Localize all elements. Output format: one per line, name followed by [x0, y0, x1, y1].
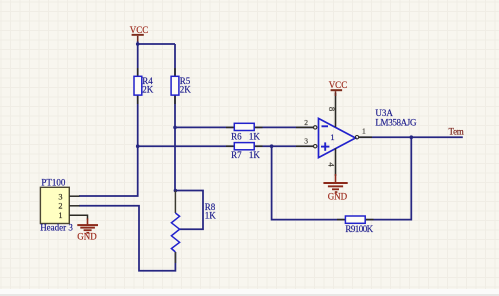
junction dot R7 tap on R4 line	[136, 144, 140, 148]
op-amp pin 2	[296, 118, 317, 129]
wire feedback: node after R7 down, through R9, up to output	[272, 137, 412, 219]
svg-text:1: 1	[330, 132, 334, 142]
junction dot R8 top	[174, 189, 178, 193]
potentiometer R8	[171, 191, 216, 264]
op-amp pin 3	[296, 136, 317, 148]
svg-text:LM358AJG: LM358AJG	[375, 117, 417, 127]
svg-text:U3A: U3A	[375, 108, 393, 118]
svg-text:2: 2	[304, 118, 308, 127]
pin 2 stub	[69, 205, 79, 207]
svg-text:PT100: PT100	[41, 178, 66, 188]
svg-text:3: 3	[304, 136, 308, 145]
svg-text:GND: GND	[328, 191, 348, 201]
svg-text:Tem: Tem	[449, 126, 464, 136]
resistor R6	[226, 123, 263, 141]
op-amp pin 1 output	[355, 127, 372, 139]
op-amp pin 4	[327, 148, 337, 176]
junction dot output to feedback	[410, 135, 414, 139]
svg-text:4: 4	[327, 162, 337, 167]
svg-text:1: 1	[58, 211, 62, 220]
svg-text:R7: R7	[231, 150, 242, 160]
svg-text:2K: 2K	[142, 85, 154, 95]
power symbol VCC (left)	[130, 25, 149, 42]
svg-text:1K: 1K	[205, 211, 217, 221]
svg-text:3: 3	[58, 192, 62, 201]
resistor R5	[171, 68, 191, 104]
svg-text:GND: GND	[77, 232, 97, 242]
svg-text:VCC: VCC	[130, 25, 149, 35]
pin 3 stub	[69, 195, 79, 197]
wire vertical through R4 down to PT100 pin3 wire	[79, 44, 138, 196]
junction dot VCC branch	[136, 42, 140, 46]
bottom edge strip	[0, 289, 499, 296]
svg-text:1: 1	[362, 127, 366, 136]
svg-text:8: 8	[327, 107, 337, 111]
svg-text:2K: 2K	[180, 85, 192, 95]
connector PT100 / Header 3	[40, 178, 87, 233]
svg-text:1K: 1K	[249, 132, 261, 142]
op-amp pin 8	[327, 93, 337, 127]
resistor R9	[337, 216, 374, 234]
wire PT100 pin2 down and around to R8 bottom	[79, 206, 175, 271]
wire R4 node to R7 to op-amp pin3	[138, 145, 314, 147]
ground symbol GND (PT100)	[77, 219, 98, 242]
resistor R7	[226, 143, 263, 161]
ground symbol GND (op-amp)	[323, 174, 347, 201]
svg-text:1K: 1K	[249, 150, 261, 160]
svg-text:R6: R6	[231, 132, 242, 142]
pin 1 stub to ground	[69, 215, 87, 219]
wire vertical through R5 down to R8 junction	[174, 44, 176, 191]
wire op-amp output to Tem	[359, 136, 463, 138]
op-amp U3A	[319, 108, 417, 158]
wire R5 node to R6 to op-amp pin2	[175, 126, 314, 128]
wire VCC node to R5 branch (horizontal y=44)	[138, 41, 175, 44]
wire R8 wiper loop	[175, 191, 203, 230]
svg-text:2: 2	[58, 201, 62, 210]
svg-text:Header 3: Header 3	[40, 222, 73, 232]
svg-text:VCC: VCC	[329, 80, 348, 90]
resistor R4	[134, 68, 154, 104]
junction dot R6 tap on R5 line	[173, 126, 177, 130]
svg-text:R9100K: R9100K	[345, 224, 373, 234]
power symbol VCC (op-amp)	[329, 80, 348, 96]
junction dot feedback at pin3 wire	[270, 144, 274, 148]
